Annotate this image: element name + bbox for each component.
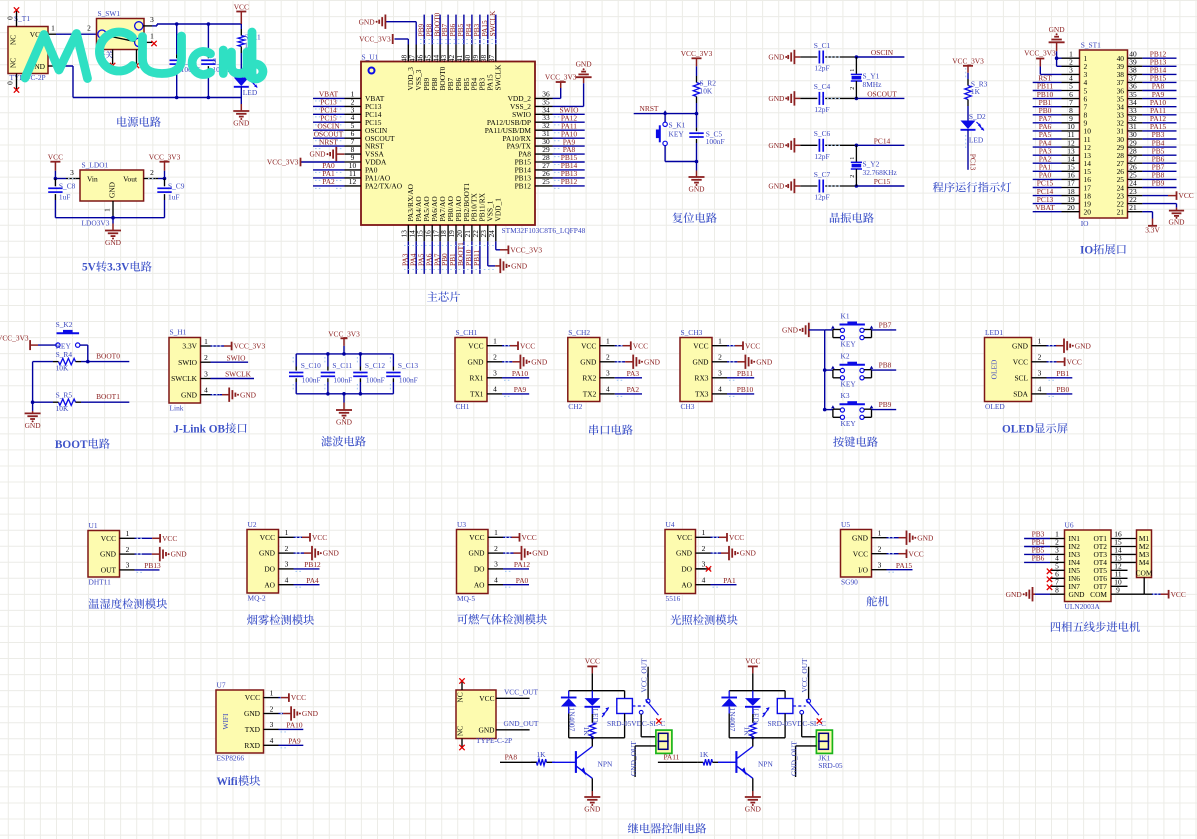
net label PA3 on S_CH2 pin 3 bbox=[615, 369, 642, 380]
svg-text:1: 1 bbox=[285, 528, 289, 537]
pin 0 top of S_T1 with no-connect bbox=[6, 7, 20, 26]
svg-text:3: 3 bbox=[126, 561, 130, 570]
wire VCC_3V3 to key K2 bbox=[38, 344, 56, 346]
svg-text:PA1: PA1 bbox=[723, 576, 736, 585]
power flag VCC_3V3 BOOT bbox=[0, 334, 38, 351]
svg-text:1: 1 bbox=[493, 337, 497, 346]
dotted net-name placeholders top bbox=[420, 40, 500, 44]
svg-text:12: 12 bbox=[349, 177, 357, 186]
pin 4 AO of U3 bbox=[488, 576, 503, 585]
svg-text:IO: IO bbox=[1080, 244, 1093, 256]
net label PC15 bbox=[856, 177, 904, 186]
ground GND on U1 pin 8 VSSA bbox=[309, 147, 344, 161]
pin 43 PB7 of U1 bbox=[439, 45, 455, 91]
net label BOOT1 bbox=[81, 392, 129, 402]
pin 9 VDDA of U1 bbox=[345, 153, 388, 167]
svg-text:VCC_3V3: VCC_3V3 bbox=[1024, 49, 1056, 58]
svg-text:VCC: VCC bbox=[909, 549, 924, 558]
svg-text:GND: GND bbox=[233, 119, 250, 128]
power flag VCC on ST1 pin23 bbox=[1142, 191, 1193, 200]
module U3 MQ-5 bbox=[457, 520, 489, 603]
ground GND of LDO bbox=[105, 218, 122, 247]
svg-text:GND: GND bbox=[782, 326, 799, 335]
svg-text:S_C6: S_C6 bbox=[814, 129, 831, 138]
svg-text:GND: GND bbox=[768, 94, 785, 103]
svg-text:VCC: VCC bbox=[312, 533, 327, 542]
pin 3 RX1 of S_CH1 bbox=[487, 369, 502, 378]
net label PB15 on U1 pin 28 bbox=[553, 153, 585, 164]
svg-text:DO: DO bbox=[681, 565, 692, 574]
svg-text:OLED: OLED bbox=[1002, 424, 1034, 436]
svg-text:VCC: VCC bbox=[745, 341, 760, 350]
svg-text:GND: GND bbox=[1168, 218, 1185, 227]
svg-text:12pF: 12pF bbox=[814, 152, 829, 161]
svg-text:TXD: TXD bbox=[245, 725, 261, 734]
pin 1 GND of LED1 bbox=[1032, 337, 1047, 346]
svg-text:S_R5: S_R5 bbox=[56, 391, 73, 400]
pin 8 VSSA of U1 bbox=[345, 145, 385, 159]
net label PB6 on ST1 pin 27 bbox=[1142, 154, 1176, 163]
svg-text:2: 2 bbox=[493, 353, 497, 362]
net label PA2 on U1 pin 12 bbox=[313, 177, 345, 188]
capacitor S_C8 1uF bbox=[48, 179, 75, 218]
svg-text:PA10: PA10 bbox=[512, 369, 528, 378]
key K1 bbox=[825, 311, 874, 348]
svg-text:CH2: CH2 bbox=[568, 402, 582, 411]
net label PB4 on U1 pin 40 bbox=[464, 15, 473, 45]
pin 11 PA1/AO of U1 bbox=[345, 169, 391, 183]
svg-text:VCC_3V3: VCC_3V3 bbox=[0, 334, 29, 343]
pin 48 VDD_3 of U1 bbox=[400, 45, 416, 91]
pin 28 of ST1 bbox=[1117, 146, 1143, 160]
svg-text:PB11: PB11 bbox=[472, 250, 481, 266]
crystal S_Y2 32.768KHz bbox=[850, 145, 898, 186]
pin 4 AO of U2 bbox=[279, 576, 294, 585]
svg-text:VCC_OUT: VCC_OUT bbox=[800, 658, 809, 693]
pin 2 GND of U3 bbox=[488, 544, 503, 553]
svg-text:GND: GND bbox=[1012, 341, 1029, 350]
module S_CH3 CH3 bbox=[680, 328, 712, 411]
power flag VCC on U4 pin 1 bbox=[711, 533, 745, 542]
svg-text:SWCLK: SWCLK bbox=[171, 374, 198, 383]
ground GND relay emitter bbox=[745, 778, 762, 813]
pin 12 of ST1 bbox=[1062, 138, 1092, 152]
capacitor S_C10 100nF bbox=[289, 354, 321, 394]
pin 47 VSS_3 of U1 bbox=[407, 45, 423, 91]
junction crystal row 2 bbox=[855, 97, 859, 101]
net label PA4 on U1 pin 14 bbox=[408, 241, 417, 274]
svg-text:GND: GND bbox=[745, 805, 762, 814]
title 温湿度检测模块 bbox=[89, 598, 168, 609]
wire GND_OUT to connector bbox=[790, 741, 817, 777]
capacitor S_C7 12pF bbox=[800, 170, 856, 202]
diode 1N4007 bbox=[721, 691, 737, 738]
svg-text:PA2/TX/AO: PA2/TX/AO bbox=[365, 182, 403, 191]
ground GND on S_CH2 pin 2 bbox=[615, 355, 661, 369]
pin 4 TX2 of S_CH2 bbox=[600, 385, 615, 394]
svg-text:37: 37 bbox=[487, 55, 496, 63]
svg-text:1: 1 bbox=[718, 337, 722, 346]
pin 14 of ST1 bbox=[1062, 154, 1092, 168]
ground GND on H1 pin4 bbox=[211, 388, 257, 402]
capacitor S_C1 12pF bbox=[800, 41, 856, 73]
net label PB7 on ST1 pin 26 bbox=[1142, 163, 1176, 172]
svg-text:100nF: 100nF bbox=[706, 137, 725, 146]
module U2 MQ-2 bbox=[247, 520, 279, 603]
no-connect on U6 pin 5 bbox=[1047, 569, 1052, 574]
junction crystal row 3 bbox=[855, 144, 859, 148]
pin 32 of ST1 bbox=[1117, 114, 1143, 128]
svg-text:3.3V: 3.3V bbox=[1145, 226, 1160, 235]
svg-text:4: 4 bbox=[493, 385, 497, 394]
svg-text:PB7: PB7 bbox=[879, 320, 892, 329]
svg-text:1N4007: 1N4007 bbox=[728, 708, 737, 732]
junction top rail C12 bbox=[359, 352, 363, 356]
junction bottom rail stem bbox=[342, 392, 346, 396]
svg-text:0: 0 bbox=[6, 81, 15, 85]
net label SWCLK on H1 pin3 bbox=[211, 370, 255, 379]
junction GND pin1 bbox=[1055, 56, 1059, 60]
pin 7 of ST1 bbox=[1062, 98, 1088, 112]
pin 40 PB4 of U1 bbox=[463, 45, 479, 91]
svg-text:VCC: VCC bbox=[260, 533, 275, 542]
svg-text:5516: 5516 bbox=[666, 594, 681, 603]
net label PC13 on ST1 pin 19 bbox=[1033, 195, 1062, 204]
no-connect bottom pin TYPE-C out bbox=[459, 739, 464, 751]
svg-text:GND: GND bbox=[309, 150, 326, 159]
svg-text:IO: IO bbox=[1081, 219, 1089, 228]
title 5V转3.3V电路 bbox=[82, 261, 152, 274]
resistor S_R2 10K bbox=[693, 76, 716, 103]
svg-text:VCC: VCC bbox=[1179, 191, 1194, 200]
net label PB10 on S_CH3 pin 4 bbox=[727, 385, 754, 396]
net label RST on ST1 pin 4 bbox=[1033, 74, 1062, 83]
pin 1 of ST1 bbox=[1062, 49, 1088, 63]
pin 17 PA7/AO of U1 bbox=[431, 196, 447, 242]
svg-text:VCC: VCC bbox=[291, 693, 306, 702]
svg-text:DHT11: DHT11 bbox=[89, 578, 112, 587]
svg-text:1uF: 1uF bbox=[168, 192, 180, 201]
wire GND_OUT to connector bbox=[629, 741, 656, 777]
svg-text:2: 2 bbox=[850, 87, 856, 90]
svg-text:VCC_OUT: VCC_OUT bbox=[504, 687, 539, 696]
junction top rail stem bbox=[342, 352, 346, 356]
pin 9 COM of U6 bbox=[1111, 585, 1144, 594]
net label PB13 on U1 pin 26 bbox=[553, 169, 585, 180]
pin 32 PA11/USB/DM of U1 bbox=[485, 121, 553, 135]
IC U6 ULN2003A bbox=[1065, 521, 1112, 612]
svg-text:NC: NC bbox=[456, 726, 465, 736]
pin 4 IN4 of U6 bbox=[1050, 554, 1065, 563]
power flag 3.3V on ST1 pin21 bbox=[1142, 212, 1160, 235]
pin 45 PB8 of U1 bbox=[423, 45, 439, 91]
svg-text:GND: GND bbox=[576, 60, 593, 69]
net label PB14 on ST1 pin 38 bbox=[1142, 66, 1176, 75]
svg-text:GND: GND bbox=[756, 357, 773, 366]
svg-text:1: 1 bbox=[878, 529, 882, 538]
relay top rail bbox=[569, 690, 625, 692]
svg-text:S_C8: S_C8 bbox=[59, 181, 76, 190]
net label PB6 on U1 pin 42 bbox=[448, 15, 457, 45]
power flag VCC relay bbox=[585, 657, 600, 691]
svg-text:S_C7: S_C7 bbox=[814, 170, 831, 179]
pin 4 SDA of LED1 bbox=[1032, 385, 1047, 394]
svg-text:PA9: PA9 bbox=[514, 385, 527, 394]
net label BOOT0 bbox=[81, 352, 129, 362]
pin 2 GND of S_CH2 bbox=[600, 353, 615, 362]
no-connect on U6 pin 6 bbox=[1047, 577, 1052, 582]
title 四相五线步进电机 bbox=[1051, 621, 1140, 631]
ground GND BOOT bbox=[25, 402, 42, 430]
pin 1 VCC of S_T1 bbox=[48, 24, 56, 35]
net label PB12 on ST1 pin 40 bbox=[1142, 49, 1176, 58]
svg-text:PC15: PC15 bbox=[874, 177, 891, 186]
pin 3 DO of U3 bbox=[488, 560, 503, 569]
svg-text:GND: GND bbox=[531, 357, 548, 366]
svg-text:S_C9: S_C9 bbox=[168, 181, 185, 190]
svg-text:3: 3 bbox=[150, 15, 154, 24]
svg-text:LED1: LED1 bbox=[985, 328, 1003, 337]
pin 7 NRST of U1 bbox=[345, 137, 385, 151]
pin 21 PB10/TX of U1 bbox=[463, 193, 479, 242]
pin 25 PB12 of U1 bbox=[515, 177, 553, 191]
svg-text:AO: AO bbox=[264, 580, 275, 589]
ground GND on U1 pin 47 VSS_3 bbox=[359, 15, 417, 45]
pin 2 VCC of LED1 bbox=[1032, 353, 1047, 362]
capacitor S_C3 100uF bbox=[201, 24, 231, 98]
pin 4 GND of H1 bbox=[201, 386, 211, 395]
svg-text:K2: K2 bbox=[841, 352, 850, 361]
svg-text:SRD-05: SRD-05 bbox=[818, 761, 843, 770]
pin 12 PA2/TX/AO of U1 bbox=[345, 177, 403, 191]
svg-text:PB6: PB6 bbox=[1032, 554, 1045, 563]
pin 10 OT7 of U6 bbox=[1111, 578, 1128, 587]
wire button trunk bbox=[824, 330, 826, 410]
svg-text:2: 2 bbox=[850, 175, 856, 178]
net label PC14 on U1 pin 3 bbox=[313, 106, 345, 117]
pin 38 PA15 of U1 bbox=[479, 45, 495, 91]
svg-text:TX2: TX2 bbox=[583, 390, 597, 399]
ground GND on U1 pin 35 VSS_2 bbox=[553, 60, 593, 107]
net label PA9 on U7 pin 4 bbox=[279, 737, 304, 748]
svg-text:VCC: VCC bbox=[585, 657, 600, 666]
pin 1 VCC of U7 bbox=[264, 688, 279, 697]
no-connect on U4 pin 3 bbox=[696, 566, 712, 571]
svg-text:LED: LED bbox=[243, 88, 258, 97]
module S_CH2 CH2 bbox=[568, 328, 600, 411]
power flag VCC on S_CH3 pin 1 bbox=[727, 341, 760, 350]
svg-text:SWCLK: SWCLK bbox=[494, 64, 503, 91]
net label BOOT1 on U1 pin 20 bbox=[456, 241, 465, 274]
junction at LDO GND bbox=[111, 216, 115, 220]
svg-text:2: 2 bbox=[702, 544, 706, 553]
ground GND on U5 pin 1 bbox=[887, 531, 934, 545]
svg-text:GND: GND bbox=[171, 550, 188, 559]
power flag VCC_3V3 at LDO out bbox=[149, 153, 181, 179]
ground GND on U1 pin 2 bbox=[135, 547, 188, 561]
junction bottom rail C11 bbox=[326, 392, 330, 396]
title 主芯片 bbox=[427, 291, 460, 301]
svg-text:S_LDO1: S_LDO1 bbox=[82, 161, 109, 170]
svg-text:GND: GND bbox=[468, 549, 485, 558]
pin 1 GND of LDO1 bbox=[103, 201, 114, 218]
power flag VCC on U1 pin 1 bbox=[135, 534, 178, 543]
svg-text:S_C10: S_C10 bbox=[301, 361, 321, 370]
svg-text:VCC: VCC bbox=[693, 341, 708, 350]
pin 3 of SW1 bbox=[143, 15, 154, 26]
relay top rail bbox=[729, 690, 785, 692]
svg-text:GND: GND bbox=[644, 357, 661, 366]
svg-text:VCC_3V3: VCC_3V3 bbox=[510, 245, 542, 254]
svg-text:DO: DO bbox=[474, 565, 485, 574]
svg-text:VCC: VCC bbox=[853, 549, 868, 558]
pin 2 IN2 of U6 bbox=[1050, 538, 1065, 547]
title 滤波电路 bbox=[321, 436, 366, 446]
net label OSCOUT on U1 pin 6 bbox=[313, 129, 345, 140]
svg-text:VCC: VCC bbox=[522, 533, 537, 542]
net label PB4 on ST1 pin 29 bbox=[1142, 138, 1176, 147]
capacitor S_C9 1uF bbox=[157, 179, 184, 218]
junction button trunk K2 bbox=[823, 368, 827, 372]
title 继电器控制电路 bbox=[628, 823, 706, 834]
svg-text:K1: K1 bbox=[841, 311, 850, 320]
title 程序运行指示灯 bbox=[933, 182, 1011, 192]
svg-text:VBAT: VBAT bbox=[1035, 203, 1055, 212]
pin 1 IN1 of U6 bbox=[1050, 530, 1065, 539]
svg-text:GND: GND bbox=[336, 418, 353, 427]
pin 2 GND of U1 bbox=[120, 545, 135, 554]
ground GND crystal row 3 bbox=[768, 138, 800, 152]
net label PA15 on U1 pin 38 bbox=[480, 15, 489, 45]
regulator S_LDO1 LDO3V3 bbox=[80, 161, 144, 228]
svg-text:PB9: PB9 bbox=[1152, 179, 1165, 188]
svg-text:2: 2 bbox=[204, 353, 208, 362]
no-connect on U6 pin 7 bbox=[1047, 585, 1052, 590]
ground GND on U7 pin 2 bbox=[279, 706, 319, 720]
svg-text:GND: GND bbox=[768, 182, 785, 191]
svg-text:VCC: VCC bbox=[245, 693, 260, 702]
svg-text:GND: GND bbox=[1049, 25, 1066, 34]
svg-text:10K: 10K bbox=[56, 364, 69, 373]
pin 35 VSS_2 of U1 bbox=[510, 97, 552, 111]
net label PB7 button bbox=[872, 320, 897, 330]
pin 14 OT3 of U6 bbox=[1111, 546, 1137, 555]
svg-text:GND: GND bbox=[584, 805, 601, 814]
net label PB7 on U1 pin 43 bbox=[440, 15, 449, 45]
svg-text:TX3: TX3 bbox=[695, 390, 709, 399]
svg-text:4: 4 bbox=[204, 386, 208, 395]
svg-text:VCC_3V3: VCC_3V3 bbox=[149, 153, 181, 162]
svg-text:3.3V: 3.3V bbox=[107, 262, 130, 274]
svg-text:VCC_3V3: VCC_3V3 bbox=[267, 158, 299, 167]
svg-text:10K: 10K bbox=[56, 404, 69, 413]
svg-text:VCC_3V3: VCC_3V3 bbox=[545, 73, 577, 82]
junction C5 bottom bbox=[695, 160, 699, 164]
net label OSCIN on U1 pin 5 bbox=[313, 121, 345, 132]
svg-text:4: 4 bbox=[285, 576, 289, 585]
svg-text:GND: GND bbox=[478, 726, 495, 735]
net label PB1 on ST1 pin 7 bbox=[1033, 98, 1062, 107]
svg-text:3: 3 bbox=[1038, 369, 1042, 378]
pin 3 RX2 of S_CH2 bbox=[600, 369, 615, 378]
wire Vout to C9 bbox=[158, 178, 165, 180]
resistor 1K relay2 base bbox=[698, 750, 736, 765]
svg-text:1: 1 bbox=[1038, 337, 1042, 346]
net label PA10 on ST1 pin 34 bbox=[1142, 98, 1176, 107]
ground GND relay emitter bbox=[584, 778, 601, 813]
pin 2 GND of S_T1 bbox=[48, 55, 56, 66]
net label PA3 on ST1 pin 13 bbox=[1033, 146, 1062, 155]
title 舵机 bbox=[867, 596, 889, 606]
pin 8 GND of U6 bbox=[1050, 585, 1065, 594]
pin 1 VCC of S_CH1 bbox=[487, 337, 502, 346]
pin 2 GND of S_CH1 bbox=[487, 353, 502, 362]
net label BOOT0 on U1 pin 44 bbox=[432, 12, 441, 44]
svg-text:VCC: VCC bbox=[1013, 357, 1028, 366]
net label PA5 on U1 pin 15 bbox=[416, 241, 425, 274]
svg-text:GND: GND bbox=[25, 421, 42, 430]
svg-text:GND: GND bbox=[100, 550, 117, 559]
svg-text:STM32F103C8T6_LQFP48: STM32F103C8T6_LQFP48 bbox=[502, 226, 586, 235]
svg-text:NC: NC bbox=[9, 58, 18, 68]
power flag VCC for LDO bbox=[48, 153, 63, 179]
svg-text:32.768KHz: 32.768KHz bbox=[863, 168, 898, 177]
net label PA11 on ST1 pin 33 bbox=[1142, 106, 1176, 115]
svg-text:COM: COM bbox=[1136, 569, 1153, 578]
svg-text:KEY: KEY bbox=[841, 339, 857, 348]
filter top rail bbox=[296, 353, 393, 355]
net label PB1 on U1 pin 19 bbox=[448, 241, 457, 274]
svg-text:GND: GND bbox=[768, 53, 785, 62]
svg-text:12pF: 12pF bbox=[814, 193, 829, 202]
net label PA9 on S_CH1 pin 4 bbox=[502, 385, 529, 396]
label 开关 value of SW1 bbox=[97, 51, 113, 59]
diode 1N4007 bbox=[561, 691, 577, 738]
net label PA15 on U5 pin 3 bbox=[887, 561, 913, 572]
pin 1 3.3V of H1 bbox=[201, 337, 211, 346]
svg-text:MQ-2: MQ-2 bbox=[248, 594, 266, 603]
pin 30 PA9/TX of U1 bbox=[507, 137, 553, 151]
net label PC13 vertical bbox=[966, 130, 978, 171]
filter bottom rail bbox=[296, 393, 393, 395]
svg-text:1uF: 1uF bbox=[59, 192, 71, 201]
MCU S_U1 STM32F103C8T6_LQFP48 bbox=[361, 53, 586, 236]
svg-text:GND_OUT: GND_OUT bbox=[790, 741, 799, 776]
svg-text:GND: GND bbox=[688, 185, 705, 194]
pin 2 GND of U4 bbox=[696, 544, 711, 553]
net label PA0 on U1 pin 10 bbox=[313, 161, 345, 172]
svg-text:20: 20 bbox=[1084, 208, 1092, 217]
svg-text:U1: U1 bbox=[89, 521, 98, 530]
net label GND_OUT bbox=[496, 719, 539, 730]
net label PB1 on LED1 pin 3 bbox=[1047, 369, 1073, 380]
svg-text:U3: U3 bbox=[457, 520, 466, 529]
svg-text:GND: GND bbox=[692, 357, 709, 366]
pin 2 SWIO of H1 bbox=[201, 353, 211, 362]
pin 39 PB3 of U1 bbox=[471, 45, 487, 91]
svg-text:GND: GND bbox=[467, 357, 484, 366]
bottom rail of LDO circuit bbox=[55, 217, 164, 219]
svg-text:U2: U2 bbox=[248, 520, 257, 529]
power flag VCC relay bbox=[745, 657, 760, 691]
net label PB9 button bbox=[872, 400, 897, 410]
svg-text:K3: K3 bbox=[841, 391, 850, 400]
svg-text:8: 8 bbox=[1055, 585, 1059, 594]
junction at C8 top bbox=[54, 177, 58, 181]
power flag VCC bbox=[234, 2, 249, 24]
dotted net-name placeholders bottom bbox=[404, 246, 496, 270]
pin 2 GND of U2 bbox=[279, 544, 294, 553]
